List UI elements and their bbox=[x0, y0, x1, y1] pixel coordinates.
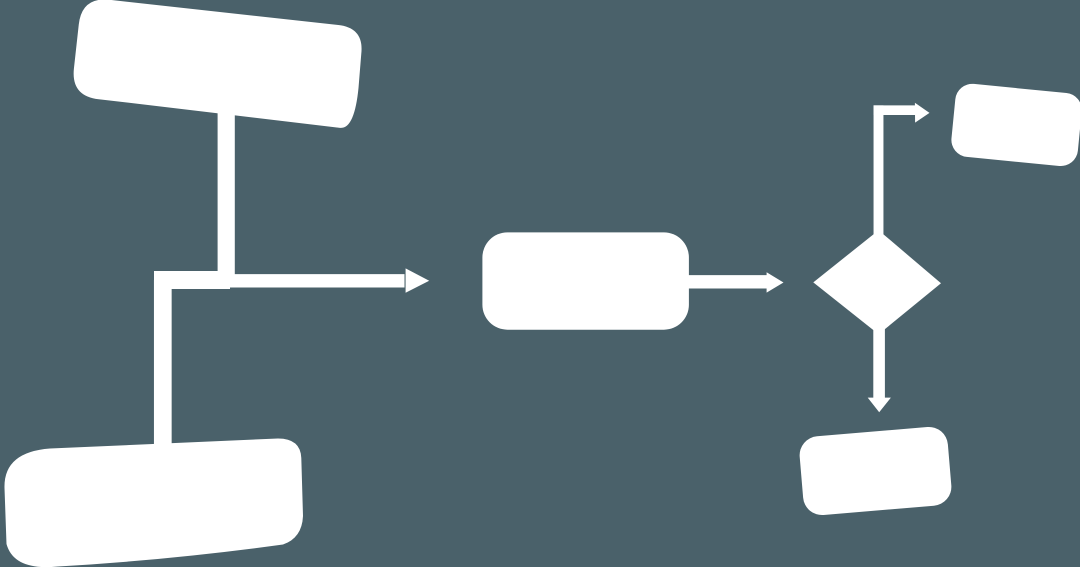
wire vertical from top-left terminator down bbox=[218, 112, 235, 280]
terminator (top-left rounded box) bbox=[71, 0, 365, 129]
wire from diamond bottom down bbox=[873, 328, 885, 399]
arrowhead into process box bbox=[406, 268, 430, 292]
wire from process box right to decision diamond bbox=[688, 275, 767, 288]
result box (bottom-right rounded rectangle) bbox=[798, 425, 953, 516]
decision diamond bbox=[813, 230, 941, 334]
arrowhead into bottom-right box bbox=[868, 398, 891, 413]
wire from diamond top upward bbox=[874, 105, 884, 240]
wire vertical from bottom-left terminator up bbox=[154, 280, 172, 445]
arrowhead into decision diamond bbox=[767, 272, 784, 292]
arrowhead into top-right box bbox=[915, 103, 930, 123]
wire elbow rightward at top bbox=[874, 105, 916, 115]
process box (middle rounded rectangle) bbox=[482, 232, 689, 329]
terminator (bottom-left rounded box) bbox=[4, 439, 303, 567]
result box (top-right rounded rectangle) bbox=[950, 82, 1080, 167]
wire horizontal left segment at junction bbox=[154, 271, 230, 289]
wire horizontal toward process box bbox=[228, 274, 405, 287]
